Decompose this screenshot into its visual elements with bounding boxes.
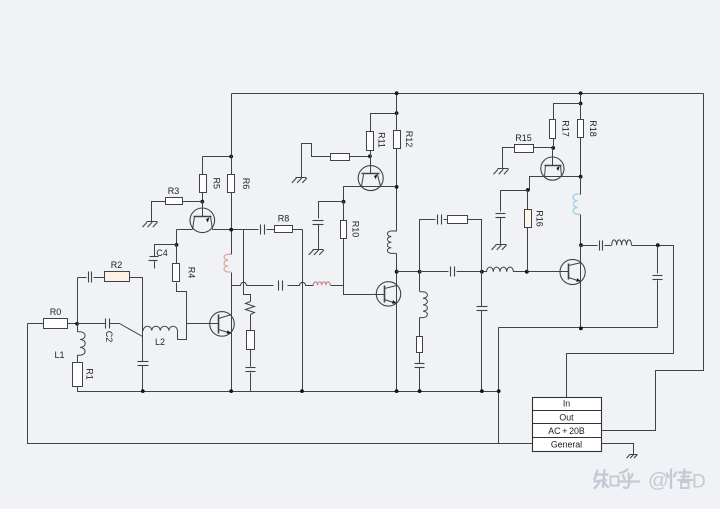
resistor R0	[44, 319, 68, 329]
wire zigzag to box resistor	[250, 315, 252, 331]
resistor R8	[275, 226, 293, 233]
wire node to R4	[176, 245, 178, 264]
wire cap to coil	[605, 245, 612, 247]
resistor zigzag style	[246, 302, 255, 315]
label R4	[187, 267, 197, 279]
junction dot R10 top node	[342, 200, 346, 204]
transistor Q4 base bar	[384, 286, 386, 303]
label R10	[351, 221, 361, 238]
transistor Q2 circle	[210, 312, 235, 337]
junction dot x=231 bus	[229, 389, 233, 393]
wire tank vertical x=142.8	[142, 331, 144, 362]
svg-text:L2: L2	[155, 337, 165, 347]
svg-text:R1: R1	[85, 368, 95, 380]
wire Q6 base inside	[561, 271, 569, 273]
resistor R3	[166, 198, 183, 205]
svg-text:@: @	[648, 469, 669, 492]
wire R2 loop top left	[78, 277, 87, 279]
watermark zhihu @wuD	[595, 469, 706, 493]
resistor R16	[525, 210, 532, 228]
wire R4 to Q2 base riser	[177, 283, 187, 340]
wire y=285 segment2	[288, 282, 314, 285]
wire node to R16	[527, 191, 529, 210]
connector row line 2	[533, 423, 602, 425]
label C4	[156, 248, 168, 258]
junction dot x=419 bus	[418, 389, 422, 393]
resistor R6	[228, 175, 235, 193]
wire R2 to loop right vertical	[130, 278, 143, 331]
label R0	[50, 307, 62, 317]
transistor Q5 base bar	[545, 165, 562, 167]
resistor R15	[515, 145, 534, 153]
wire x=657 cap to y=327	[657, 281, 659, 328]
wire R15 to ground	[503, 148, 515, 169]
resistor R10	[341, 221, 347, 239]
wire Q4 base inside	[377, 294, 385, 296]
transistor Q5 left leg	[545, 166, 546, 177]
transistor Q5 right leg	[561, 166, 562, 177]
connector row line 1	[533, 410, 602, 412]
svg-text:R5: R5	[212, 178, 222, 190]
svg-text:AC + 20B: AC + 20B	[548, 426, 585, 436]
transistor Q2 emitter arrow	[227, 330, 231, 334]
wire x=231 vertical upper	[231, 94, 233, 255]
wire In-net from output node down to In terminal	[567, 246, 674, 398]
resistor R1	[73, 363, 83, 387]
wire Q2 base	[187, 323, 219, 325]
ground R3	[142, 222, 157, 228]
junction dot x=481 bus	[480, 389, 484, 393]
label General terminal	[551, 440, 582, 450]
inductor blue on x=580	[573, 194, 581, 214]
wire cap to bus x=419	[419, 368, 421, 392]
junction dot Q6 emitter y=327	[579, 327, 583, 331]
transistor Q2 collector diag	[219, 315, 232, 319]
wire R8 to loop right	[293, 229, 303, 231]
svg-text:R18: R18	[588, 120, 598, 137]
wire base node down	[176, 230, 178, 245]
wire emitter bus y=327	[499, 327, 658, 329]
label L1	[54, 350, 64, 360]
label L2	[155, 337, 165, 347]
label R1	[85, 368, 95, 380]
wire Q5 left lead	[530, 177, 581, 191]
transistor Q1 circle	[190, 208, 215, 233]
ground General	[627, 455, 638, 459]
wire y=271 coil to Q6 base	[514, 271, 561, 273]
transistor Q3 circle	[358, 166, 383, 191]
capacitor C4 plates	[149, 257, 159, 261]
transistor Q1 left leg	[193, 217, 195, 230]
wire bias box to R11 node	[350, 156, 370, 158]
wire R18 to Q5 emitter node	[580, 138, 582, 177]
ground bypass Q3	[309, 250, 324, 255]
ground R15	[494, 169, 509, 175]
label R11	[377, 132, 387, 148]
capacitor x=419 chain	[415, 364, 425, 368]
resistor bias box	[331, 154, 350, 161]
capacitor bypass Q5	[496, 214, 506, 218]
wire Q3 left lead	[344, 187, 397, 202]
resistor R17	[550, 120, 556, 139]
junction dot x=481 node	[480, 270, 484, 274]
transistor Q6 emitter diag	[569, 278, 581, 282]
transistor Q4 collector diag	[385, 286, 397, 289]
label In terminal	[563, 399, 570, 409]
wire Q1 base from C4 node	[177, 229, 193, 231]
ferrite bead red coil	[313, 282, 330, 285]
wire R8 loop right vertical	[302, 230, 304, 392]
svg-text:R8: R8	[278, 214, 290, 224]
connector block outline	[533, 398, 602, 452]
junction dot R8 right bus	[300, 389, 304, 393]
resistor R11	[367, 132, 374, 151]
label R15	[515, 133, 532, 143]
wire R3 to ground	[152, 202, 166, 222]
junction dot x=396 bus	[395, 389, 399, 393]
transistor Q6 emitter arrow	[576, 278, 580, 282]
wire box to cap x=419	[419, 353, 421, 364]
transistor Q5 circle	[541, 157, 564, 180]
wire outer loop from R0 to General terminal	[28, 324, 533, 444]
wire cap to box	[444, 219, 448, 221]
label R12	[404, 131, 414, 148]
wire x=231 vertical lower	[231, 273, 233, 392]
junction dot rail x=580	[579, 91, 583, 95]
wire R17 top link	[554, 104, 581, 120]
capacitor C in R2 loop	[89, 272, 92, 283]
wire coil to In node	[632, 245, 658, 247]
resistor R12	[394, 131, 401, 149]
wire cap to R2	[94, 277, 105, 279]
resistor x=419 chain box	[417, 337, 423, 353]
capacitor series y=271	[451, 267, 455, 277]
wire General to ground	[602, 444, 634, 455]
svg-text:R17: R17	[561, 120, 571, 137]
svg-text:R4: R4	[187, 267, 197, 279]
wire box to cap	[250, 350, 252, 367]
svg-text:Out: Out	[559, 413, 574, 423]
wire R5 R6 top link	[203, 156, 232, 158]
label R2	[111, 260, 123, 270]
wire R18 top	[580, 104, 582, 120]
transistor Q1 emitter arrow	[206, 217, 209, 222]
wire R10 to Q4 base	[344, 239, 377, 295]
wire y=271 cap to node	[457, 271, 487, 273]
wire R5 top stub	[202, 157, 204, 175]
wire Q1 emitter to x=231	[213, 229, 244, 231]
capacitor series y=285	[279, 281, 283, 291]
wire x=481 cap to bus	[481, 311, 483, 392]
transistor Q3 emitter arrow	[374, 174, 377, 179]
junction dot Q3 emitter x=396	[395, 185, 399, 189]
transistor Q6 base bar	[568, 264, 570, 280]
wire Q6 collector emitter line	[580, 246, 582, 329]
capacitor in R8 loop	[261, 225, 265, 235]
capacitor stage4 loop	[438, 215, 442, 225]
junction dot C4 R4 node	[175, 243, 179, 247]
junction dot x=396 rail	[395, 91, 399, 95]
capacitor C2	[106, 319, 110, 329]
capacitor tank C bottom	[138, 362, 149, 366]
svg-text:R6: R6	[241, 178, 251, 190]
transistor Q6 collector diag	[569, 263, 582, 266]
wire C2 to diagonal	[110, 323, 120, 325]
wire x=396 vertical upper	[396, 94, 398, 232]
wire node to cap chain	[501, 191, 528, 212]
transistor Q5 collector lead	[552, 148, 554, 166]
wire rail to R17R18 node	[580, 94, 582, 104]
wire x=419 up	[420, 220, 436, 272]
wire diagonal C2 to tank	[120, 324, 143, 337]
junction dot x=419 node	[418, 270, 422, 274]
junction dot In branch node	[656, 243, 660, 247]
inductor output series	[612, 240, 632, 245]
capacitor x=657	[653, 276, 663, 280]
junction dot x=498 bus	[497, 389, 501, 393]
wire x=580 to coil	[580, 177, 582, 195]
wire cap to ground	[318, 225, 320, 250]
transistor Q4 emitter arrow	[392, 300, 396, 304]
svg-text:R16: R16	[535, 210, 545, 227]
wire vertical x=498.7 bus-to-General	[498, 328, 500, 444]
wire R0 to node A	[68, 323, 78, 325]
inductor L2	[143, 326, 177, 330]
transistor Q3 left leg	[362, 175, 364, 187]
wire R16 to y=271 node	[527, 228, 529, 272]
label C2	[104, 331, 114, 343]
wire top supply rail	[232, 93, 704, 95]
label R5	[212, 178, 222, 190]
transistor Q2 emitter diag	[219, 330, 232, 334]
junction dot Q4 collector node	[395, 270, 399, 274]
wire R8 loop top	[244, 229, 259, 231]
inductor on x=396	[387, 231, 396, 253]
label R8	[278, 214, 290, 224]
label R6	[241, 178, 251, 190]
node A junction dot	[75, 322, 79, 326]
ground Z bias	[292, 178, 307, 183]
label AC+20B terminal	[548, 426, 585, 436]
transistor Q2 base bar	[218, 315, 220, 334]
junction dot Q1 collector node	[200, 200, 204, 204]
inductor pink ferrite on x=231	[224, 254, 231, 272]
wire R8 loop left vertical	[244, 230, 251, 302]
wire x=419 between	[419, 272, 421, 292]
resistor R4	[173, 264, 180, 282]
junction dot x=526 node	[525, 270, 529, 274]
wire ground bus y=391	[78, 387, 499, 392]
transistor Q5 emitter arrow	[556, 166, 559, 171]
wire x=396 vertical lower	[396, 254, 398, 392]
resistor R2	[105, 272, 130, 282]
transistor Q4 emitter diag	[385, 300, 397, 304]
wire node to C4	[155, 245, 177, 257]
wire zigzag to R10 line	[331, 285, 344, 287]
wire cap to R8	[267, 229, 275, 231]
svg-text:General: General	[551, 440, 582, 450]
label R3	[168, 186, 180, 196]
junction dot Q1 emitter x=231	[229, 228, 233, 232]
wire node A to C2	[78, 323, 106, 325]
wire R17 to Q5 node	[553, 139, 555, 148]
resistor R5	[200, 175, 207, 193]
capacitor chain bottom	[246, 368, 256, 372]
wire R2 loop left vertical	[77, 278, 79, 324]
junction dot Q5 emitter x=580	[579, 175, 583, 179]
wire Z bias	[302, 144, 331, 178]
svg-text:C4: C4	[156, 248, 168, 258]
wire L1 to R1	[77, 356, 79, 363]
wire coil to output node	[580, 215, 582, 246]
wire C4 stub	[154, 261, 156, 269]
transistor Q3 base bar	[362, 173, 380, 175]
wire x=657 down to cap	[657, 246, 659, 274]
wire R15 to Q5 collector node	[534, 147, 554, 149]
wire cap to ground Q5	[500, 218, 502, 245]
wire y=271 to cap	[420, 271, 449, 273]
wire y=285 with crossover hops	[232, 282, 274, 285]
svg-text:C2: C2	[104, 331, 114, 343]
junction dot output node x=580	[579, 243, 583, 247]
wire R11 top	[371, 114, 397, 132]
label R18	[588, 120, 598, 137]
connector row line 3	[533, 437, 602, 439]
svg-text:R3: R3	[168, 186, 180, 196]
wire L2 right end step	[178, 331, 187, 340]
junction dot Q5 collector node	[551, 146, 555, 150]
svg-text:L1: L1	[54, 350, 64, 360]
svg-text:R10: R10	[351, 221, 361, 238]
junction dot R11 bottom	[368, 154, 372, 158]
label R16	[535, 210, 545, 227]
wire node to R10	[343, 202, 345, 221]
wire coil to box x=419	[419, 318, 421, 337]
wire box to right corner	[468, 220, 482, 272]
wire tank cap to bus	[142, 366, 144, 392]
capacitor x=481	[477, 307, 488, 311]
svg-text:R15: R15	[515, 133, 532, 143]
resistor stage4 box	[448, 216, 468, 224]
ground bypass Q5	[492, 245, 507, 250]
junction dot R16 top node	[526, 188, 530, 192]
wire R3 to Q1 collector node	[183, 201, 203, 203]
junction dot R11 top x=396	[395, 111, 399, 115]
wire output node to cap	[581, 245, 598, 247]
transistor Q3 collector lead	[370, 157, 372, 174]
transistor Q1 base bar	[194, 216, 212, 218]
wire y=271 q4 to x=419	[397, 271, 420, 273]
resistor chain box	[247, 331, 255, 350]
capacitor bypass Q3	[313, 221, 324, 225]
transistor Q1 right leg	[211, 217, 213, 230]
svg-text:R12: R12	[404, 131, 414, 148]
wire node to bypass cap	[319, 202, 344, 219]
wire input left segment	[28, 323, 44, 325]
capacitor output series	[600, 241, 603, 251]
transistor Q6 circle	[560, 259, 585, 284]
svg-text:R0: R0	[50, 307, 62, 317]
wire R11 to node	[370, 151, 372, 157]
junction dot R6 line top	[229, 155, 233, 159]
transistor Q3 right leg	[378, 175, 381, 187]
wire right edge drop to AC+20B	[602, 94, 704, 431]
inductor L1	[77, 332, 85, 356]
label R17	[561, 120, 571, 137]
transistor Q1 collector lead	[202, 202, 204, 217]
label Out terminal	[559, 413, 574, 423]
transistor Q4 circle	[376, 282, 400, 306]
svg-text:In: In	[563, 399, 570, 409]
wire cap to bus	[250, 373, 252, 392]
svg-text:R2: R2	[111, 260, 123, 270]
wire node A to L1	[77, 324, 79, 332]
junction dot R17R18 node	[579, 102, 583, 106]
wire R5 to Q1 collector node	[202, 193, 204, 202]
junction dot tank-bus	[141, 389, 145, 393]
resistor R18	[578, 120, 584, 138]
svg-text:D: D	[692, 472, 706, 493]
svg-text:R11: R11	[377, 132, 387, 148]
wire x=481 down	[481, 272, 483, 307]
inductor series y=271	[487, 267, 514, 272]
inductor x=419 chain	[420, 292, 428, 318]
